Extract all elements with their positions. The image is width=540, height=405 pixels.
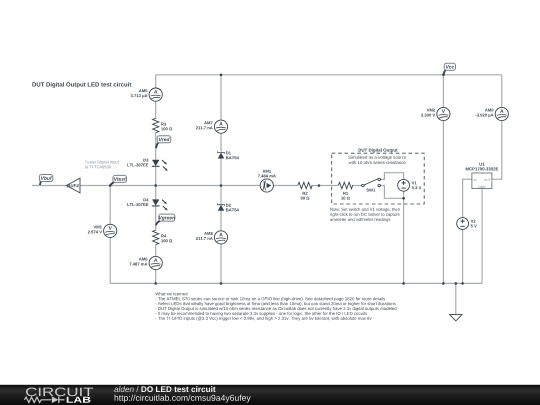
wire — [80, 185, 260, 187]
voltmeter VM1 — [88, 224, 117, 237]
ground — [450, 315, 462, 321]
node junction — [455, 282, 458, 285]
wire — [110, 282, 482, 284]
wire — [156, 74, 502, 76]
resistor R2 — [298, 182, 312, 199]
wire — [155, 166, 157, 199]
LED D4 — [127, 198, 167, 210]
node Vred — [156, 136, 171, 148]
ammeter AM7 — [196, 120, 228, 133]
CircuitLab logo — [24, 388, 93, 404]
voltmeter VM2 — [421, 107, 450, 120]
voltage source V1 — [398, 179, 422, 191]
diode D2 — [218, 204, 239, 212]
wire — [109, 186, 111, 225]
node junction — [402, 282, 405, 285]
node junction — [154, 282, 157, 285]
ammeter AM5 — [131, 88, 163, 101]
wire — [220, 211, 222, 231]
wire — [492, 121, 502, 180]
DUT Digital Output dashed box — [332, 148, 425, 204]
LED D3 — [127, 159, 167, 171]
wire — [403, 191, 405, 283]
node junction — [154, 184, 157, 187]
schematic title — [32, 82, 131, 88]
wire — [481, 189, 483, 283]
voltage source V2 — [457, 218, 477, 230]
diode D1 — [218, 151, 239, 159]
node junction — [318, 184, 321, 187]
resistor R1 — [338, 182, 352, 199]
wire — [462, 229, 464, 283]
wire — [155, 206, 157, 230]
note annotation — [330, 208, 400, 222]
node junction — [220, 282, 223, 285]
node junction — [220, 184, 223, 187]
wire — [155, 270, 157, 284]
node Vcc — [444, 63, 456, 74]
ammeter AM1 — [258, 170, 276, 192]
wire — [463, 179, 473, 217]
node junction — [220, 74, 223, 77]
wire — [381, 186, 404, 199]
wire — [455, 283, 457, 314]
annotation: what we learned — [155, 292, 396, 321]
footer title text — [114, 386, 251, 403]
wire — [32, 185, 67, 187]
footer bar — [0, 385, 540, 405]
wire — [155, 75, 157, 88]
node junction — [442, 74, 445, 77]
wire — [442, 75, 444, 108]
wire — [220, 158, 222, 204]
node junction — [442, 282, 445, 285]
node Vbuf — [39, 175, 52, 186]
ammeter AM9 — [475, 107, 508, 120]
wire — [442, 121, 444, 284]
wire — [220, 75, 222, 120]
annotation: tester digital input — [85, 160, 119, 168]
resistor R4 — [153, 230, 173, 244]
wire — [155, 101, 157, 118]
wire — [109, 238, 111, 284]
node junction — [109, 184, 112, 187]
wire — [381, 173, 404, 180]
wire — [220, 133, 222, 151]
buffer BUF4 — [67, 178, 81, 193]
wire — [220, 244, 222, 283]
resistor R3 — [153, 118, 173, 132]
node junction — [402, 197, 405, 200]
node junction — [461, 282, 464, 285]
wire — [501, 75, 503, 108]
wire — [155, 133, 157, 160]
node Vtest — [111, 175, 127, 185]
node Vgreen — [156, 214, 175, 225]
IC U1 MCP1700-3302E — [466, 163, 499, 189]
wire — [155, 245, 157, 257]
wire — [352, 185, 362, 187]
switch SW1 — [362, 178, 381, 191]
ammeter AM6 — [129, 256, 162, 269]
wire — [311, 185, 338, 187]
ammeter AM8 — [196, 231, 228, 244]
wire — [273, 185, 297, 187]
